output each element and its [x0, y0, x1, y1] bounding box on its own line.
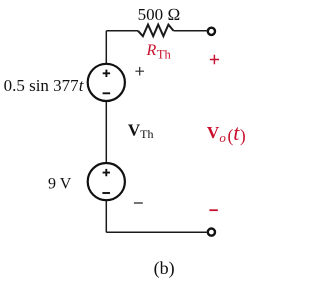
- wire: between sources: [105, 102, 107, 162]
- polarity - inside V2: [102, 192, 110, 194]
- polarity + for V_o (red): [210, 55, 219, 64]
- polarity - for V_Th (black): [134, 202, 143, 204]
- svg-text:RTh: RTh: [146, 42, 172, 61]
- svg-text:9 V: 9 V: [48, 176, 72, 193]
- polarity + inside V2: [103, 169, 110, 176]
- polarity + for V_Th (black): [135, 67, 144, 76]
- svg-text:0.5 sin 377t: 0.5 sin 377t: [4, 76, 85, 95]
- polarity - inside V1: [103, 92, 111, 94]
- svg-text:o: o: [219, 130, 226, 145]
- svg-text:): ): [240, 125, 246, 145]
- svg-text:V: V: [207, 123, 220, 142]
- svg-text:(b): (b): [154, 258, 175, 279]
- label V_o(t) (red): [207, 120, 246, 146]
- polarity - for V_o (red): [209, 209, 217, 211]
- wire: below V2 to bottom corner: [105, 201, 107, 233]
- polarity + inside V1: [103, 70, 110, 77]
- terminal b (bottom open circle): [208, 229, 215, 236]
- terminal a (top open circle): [208, 28, 215, 35]
- resistor R_Th 500 ohm zigzag: [138, 25, 174, 37]
- wire: bottom horizontal to terminal: [106, 231, 207, 233]
- svg-text:VTh: VTh: [128, 120, 154, 140]
- wire: left vertical from top corner to AC source: [105, 31, 107, 63]
- wire: top-right horizontal from resistor to terminal: [174, 30, 207, 32]
- svg-text:500 Ω: 500 Ω: [138, 5, 181, 24]
- wire: top-left horizontal from corner to resistor: [106, 30, 138, 32]
- voltage source V1: 0.5 sin 377t (circle): [88, 64, 125, 101]
- voltage source V2: 9 V (circle): [88, 163, 125, 200]
